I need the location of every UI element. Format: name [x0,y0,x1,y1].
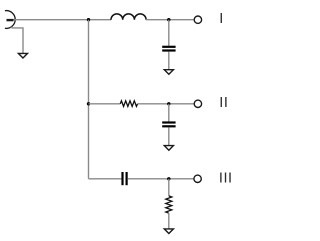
ground (branch III) [164,229,173,234]
terminal I [194,16,201,23]
wire: resistor to ground [168,213,170,229]
capacitor C1 (shunt, branch I) [162,47,175,51]
wire: node I down to capacitor [168,20,170,46]
junction: branch I node [167,18,170,21]
terminal III [194,175,201,182]
ground (connector) [18,53,27,58]
svg-text:III: III [219,170,233,186]
junction: bus / branch I [87,18,90,21]
input connector J1 (jack: open arc + center pin) [5,11,15,29]
junction: branch III node [167,177,170,180]
wire: resistor to terminal II [138,103,194,105]
wire: capacitor to terminal III [128,178,194,180]
junction: bus / branch II [87,102,90,105]
wire: bus to resistor [89,103,121,105]
wire: connector shell to ground [11,27,23,53]
ground (branch II) [164,146,173,151]
resistor R1 (series, branch II) [120,101,137,107]
wire: vertical bus [88,20,90,179]
junction: branch II node [167,102,170,105]
capacitor C3 (series, branch III) [123,172,127,185]
inductor L (3 humps) [111,14,146,20]
resistor R2 (shunt, branch III) [166,196,172,213]
ground (branch I) [164,70,173,75]
wire: bus corner to series capacitor [89,178,122,180]
wire: node II down to capacitor [168,104,170,122]
capacitor C2 (shunt, branch II) [162,123,175,127]
wire: capacitor to ground [168,52,170,70]
wire: connector pin to inductor [14,19,112,21]
wire: capacitor to ground [168,127,170,145]
svg-text:I: I [219,11,223,27]
svg-text:II: II [219,95,228,111]
wire: node III down to resistor [168,179,170,196]
terminal II [194,100,201,107]
wire: inductor to terminal I [146,19,194,21]
